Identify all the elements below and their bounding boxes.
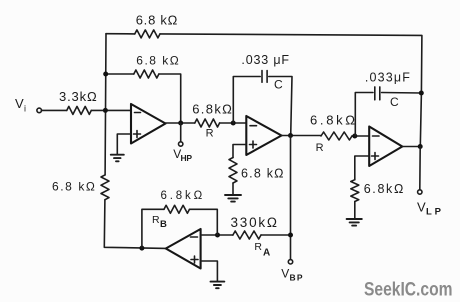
svg-text:6.8 kΩ: 6.8 kΩ (241, 167, 284, 181)
svg-text:C: C (390, 95, 399, 109)
junction U4 output / RB left leg (139, 246, 144, 251)
wire U2 noninverting input to R4 (233, 145, 246, 158)
svg-text:V: V (417, 200, 426, 215)
svg-text:6.8 kΩ: 6.8 kΩ (136, 53, 178, 67)
wire R4 to ground (232, 183, 234, 195)
capacitor C1 .033 uF (233, 53, 292, 136)
svg-text:V: V (281, 267, 289, 281)
ground U1 (111, 155, 124, 162)
svg-text:i: i (24, 104, 26, 114)
svg-text:R: R (152, 214, 160, 226)
svg-text:LP: LP (426, 206, 442, 217)
wire left bus vertical (summing node bus) (104, 34, 166, 249)
capacitor C2 .033 uF (355, 71, 421, 137)
svg-text:BP: BP (290, 273, 303, 283)
junction capacitor C1 tap (231, 121, 236, 126)
op-amp U2 integrator 1 band-pass (246, 116, 281, 155)
junction RA / VBP vertical (288, 233, 293, 238)
resistor R4 6.8 kOhm U2 noninverting to ground (229, 158, 284, 184)
svg-text:C: C (274, 78, 283, 92)
op-amp U3 integrator 2 low-pass (369, 127, 402, 167)
svg-text:.033μF: .033μF (365, 71, 410, 85)
wire top feedback net (106, 34, 422, 147)
input terminal Vi (15, 96, 42, 114)
terminal VBP (281, 260, 303, 283)
wire right vertical down to VLP terminal (419, 147, 421, 190)
resistor R1 6.8 kOhm top feedback (135, 13, 178, 38)
junction bus / Vi wire (103, 108, 108, 113)
svg-text:R: R (206, 128, 214, 140)
wire second feedback from bus to VHP node (106, 74, 181, 123)
wire U3 noninverting input to R6 (355, 156, 369, 180)
resistor RA 330 kOhm U4 input from VBP (231, 215, 291, 259)
svg-text:A: A (263, 248, 270, 259)
svg-text:330kΩ: 330kΩ (231, 215, 278, 230)
wire U4 noninverting input to ground (201, 261, 218, 281)
resistor RB 6.8 kOhm U4 feedback (142, 190, 217, 248)
svg-text:R: R (254, 241, 262, 253)
junction capacitor C2 tap (352, 134, 357, 139)
wire R5 to U3 inverting input (352, 135, 369, 137)
junction VLP node (418, 144, 423, 149)
resistor R 6.8 kOhm VHP to integrator 1 (192, 102, 232, 140)
junction VBP node (288, 133, 293, 138)
wire U4 inverting input to RB RA junction (201, 234, 233, 236)
svg-text:6.8 kΩ: 6.8 kΩ (136, 13, 178, 28)
svg-text:HP: HP (181, 153, 193, 163)
wire R6 to ground (354, 202, 356, 219)
resistor R5 6.8 kOhm VBP to integrator 2 (310, 113, 355, 155)
terminal VHP (173, 123, 192, 163)
svg-text:SeekIC.com: SeekIC.com (364, 279, 453, 301)
junction VHP node (178, 121, 183, 126)
resistor R3 3.3 kOhm input (59, 89, 97, 114)
terminal VLP (417, 190, 442, 218)
svg-text:6.8 kΩ: 6.8 kΩ (52, 179, 95, 193)
wire Vi input (42, 109, 132, 111)
wire U2 output VBP node (282, 135, 322, 137)
svg-text:R: R (316, 142, 324, 154)
junction bus / second feedback (103, 72, 108, 77)
svg-text:3.3kΩ: 3.3kΩ (59, 89, 97, 104)
svg-text:6.8kΩ: 6.8kΩ (192, 102, 232, 117)
resistor R2 6.8 kOhm second feedback (134, 53, 179, 78)
ground U3 (347, 219, 362, 226)
wire U1 noninverting input to ground (117, 134, 131, 155)
junction C2 / right vertical (419, 91, 424, 96)
svg-text:6.8kΩ: 6.8kΩ (161, 190, 203, 202)
svg-text:B: B (160, 219, 167, 230)
ground U2 (225, 195, 241, 202)
wire R to U2 inverting input (220, 122, 247, 124)
svg-text:.033 μF: .033 μF (241, 53, 289, 67)
resistor R7 6.8 kOhm left bus damping (52, 175, 109, 200)
ground U4 (211, 282, 225, 289)
wire VBP node down to terminal (290, 136, 292, 260)
resistor R6 6.8 kOhm U3 noninverting to ground (351, 180, 404, 202)
op-amp U4 inverter points left (166, 229, 201, 269)
junction RB RA (215, 233, 220, 238)
svg-text:6.8kΩ: 6.8kΩ (364, 182, 404, 196)
svg-text:6.8kΩ: 6.8kΩ (310, 113, 355, 128)
wire U1 output VHP node (166, 122, 195, 124)
op-amp U1 high-pass section (131, 104, 166, 144)
svg-text:V: V (15, 96, 24, 111)
wire U3 output to right vertical (402, 146, 420, 148)
